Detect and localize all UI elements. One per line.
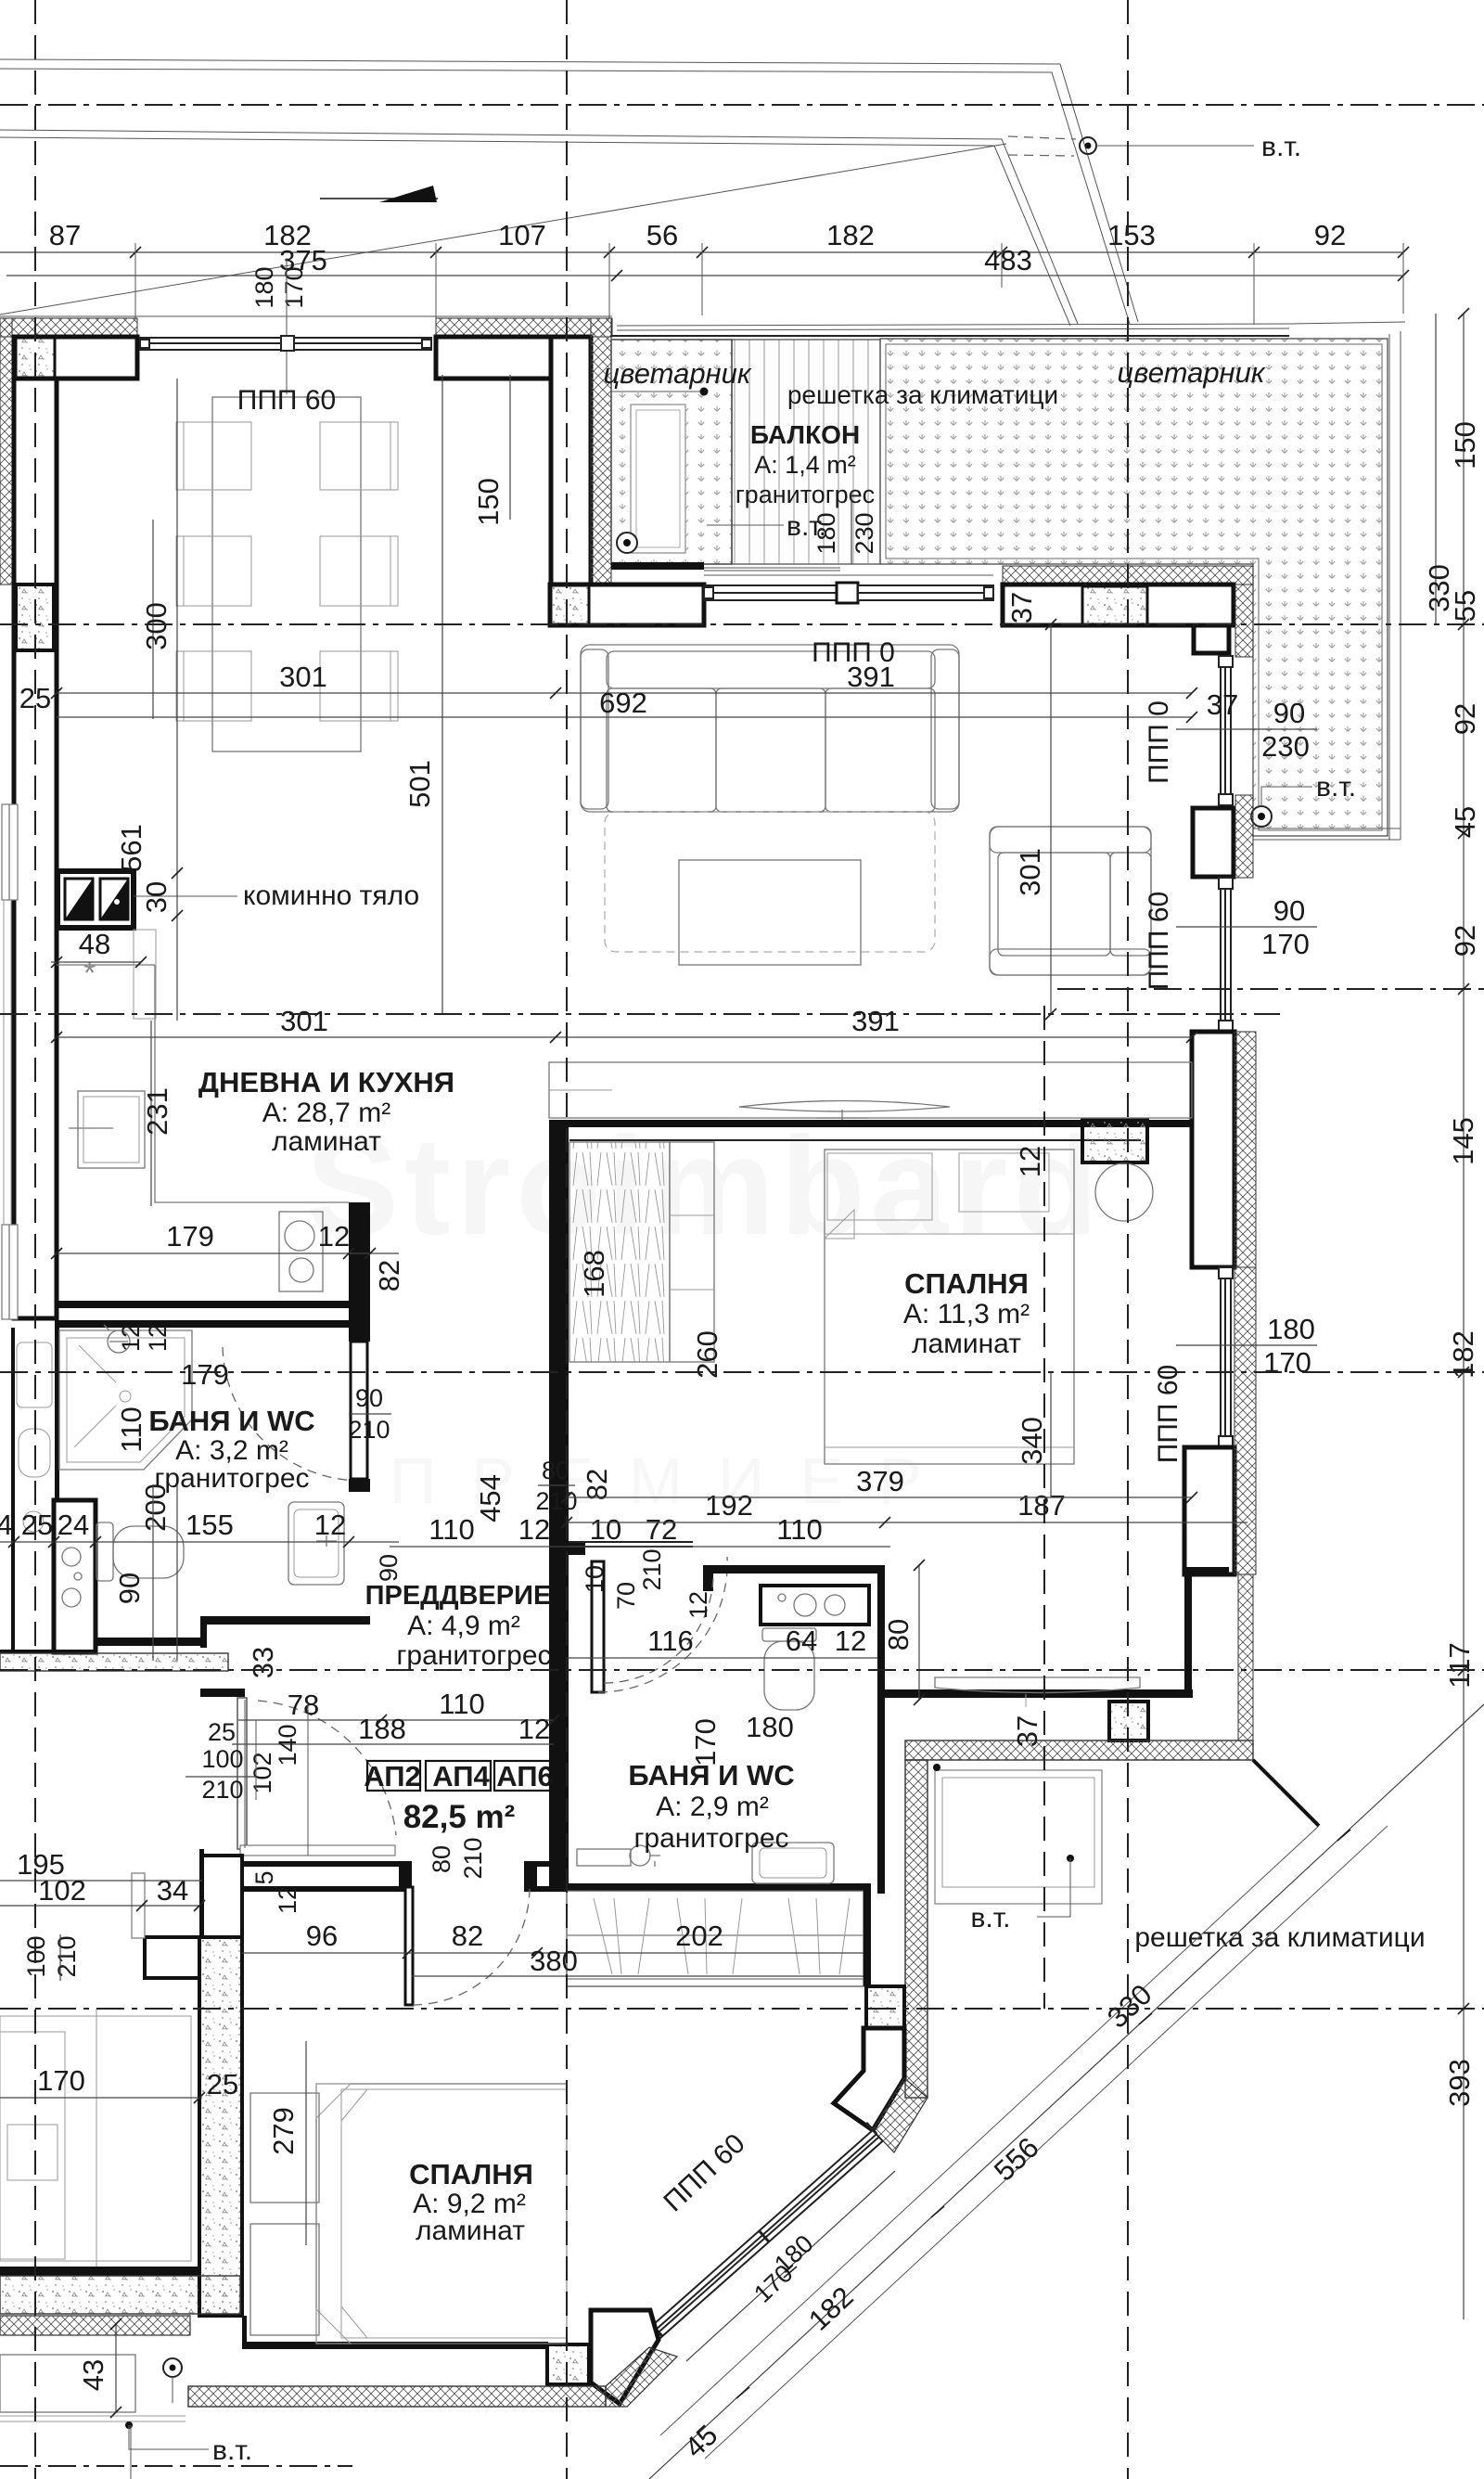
bed [825,1150,1074,1464]
170 25 279 [0,2097,202,2099]
shower [59,1330,192,1470]
roof outline upper floor [0,59,1138,322]
svg-text:200: 200 [139,1484,172,1532]
svg-text:10: 10 [581,1565,608,1593]
svg-text:48: 48 [79,928,110,960]
svg-text:64: 64 [786,1625,817,1657]
planter 2 large [880,339,1388,836]
svg-text:А: 4,9 m²: А: 4,9 m² [407,1611,520,1641]
neighbour bottom wall [0,2267,199,2276]
svg-text:102: 102 [38,1874,86,1907]
svg-text:210: 210 [53,1935,81,1977]
planter1 bottom edge [611,562,704,570]
hatch band bottom [188,2386,606,2407]
pier P1 [834,2028,904,2130]
svg-text:170: 170 [1261,928,1310,960]
concrete block left wall [16,584,54,650]
concrete block in bedroom top wall [1082,1120,1147,1162]
window W5 ППП 60 [1219,878,1233,1032]
svg-text:ДНЕВНА И КУХНЯ: ДНЕВНА И КУХНЯ [198,1066,454,1098]
svg-text:АП6: АП6 [496,1760,554,1792]
svg-text:12: 12 [684,1591,712,1619]
fridge / sink unit [78,1091,145,1168]
svg-text:в.т.: в.т. [212,2435,252,2466]
axis 3 horizontal y=1093 [0,1013,1280,1015]
bath south wall left part [92,1638,203,1646]
svg-text:45: 45 [1449,806,1481,838]
svg-text:в.т.: в.т. [787,511,826,542]
svg-text:25: 25 [208,1718,236,1746]
svg-text:391: 391 [851,1005,900,1037]
chimney block [58,871,134,928]
svg-text:АП2: АП2 [364,1760,421,1792]
svg-text:380: 380 [530,1945,578,1977]
svg-text:72: 72 [646,1513,677,1546]
svg-text:гранитогрес: гранитогрес [396,1640,551,1671]
svg-text:4: 4 [0,1509,13,1541]
svg-text:301: 301 [280,1005,328,1037]
svg-text:5: 5 [250,1870,278,1884]
svg-text:в.т.: в.т. [1261,132,1301,162]
neighbour door leaf [132,1873,145,1938]
svg-text:АП4: АП4 [432,1760,490,1792]
svg-text:в.т.: в.т. [1316,772,1356,803]
AP boxes [364,1760,554,1792]
svg-text:117: 117 [1443,1642,1476,1688]
kitchen bottom wall upper line [57,1301,370,1308]
svg-text:А: 1,4 m²: А: 1,4 m² [754,451,856,479]
sink 2.9 [752,1843,834,1883]
axis 6 horizontal y=2165 [0,2008,1484,2010]
svg-text:БАНЯ И WC: БАНЯ И WC [148,1405,314,1437]
svg-text:10: 10 [590,1513,621,1546]
svg-text:110: 110 [776,1513,822,1546]
svg-text:70: 70 [612,1582,640,1610]
svg-text:192: 192 [705,1489,753,1522]
bath2.9 top wall [703,1565,885,1573]
nightstand boxes [250,2093,319,2203]
insulation hatch top-left [0,318,137,337]
svg-text:92: 92 [1449,925,1481,957]
wall block top-left [14,337,137,379]
svg-text:155: 155 [185,1509,234,1541]
svg-text:90: 90 [113,1573,146,1604]
svg-text:цветарник: цветарник [1117,356,1265,389]
svg-text:25: 25 [207,2068,238,2100]
svg-text:391: 391 [847,661,895,693]
svg-text:210: 210 [201,1776,243,1804]
svg-text:170: 170 [280,266,308,308]
top dimension row 1 y=272 [0,251,1403,253]
wall stub left of entrance [199,1849,204,1937]
bath south wall right part [200,1616,370,1625]
axis A vertical x=38 [34,0,36,2479]
svg-text:гранитогрес: гранитогрес [736,481,875,508]
shaft walls [54,1500,96,1652]
kitchen wall stub [349,1202,370,1304]
neighbour balcony bottom-left [0,2355,135,2412]
svg-text:ламинат: ламинат [272,1126,381,1157]
svg-text:170: 170 [1263,1346,1311,1379]
chain y=1662 [0,1541,399,1543]
svg-text:153: 153 [1107,219,1156,251]
svg-text:501: 501 [403,760,436,808]
svg-text:179: 179 [181,1358,229,1391]
washbasin 3.2 [288,1502,344,1585]
svg-text:БАЛКОН: БАЛКОН [750,420,860,449]
svg-text:168: 168 [578,1250,610,1298]
toilet 3.2 [96,1522,113,1581]
bath top wall [55,1320,352,1328]
bedroom2 south wall [242,2342,548,2349]
window W4 ППП 0 [1219,656,1233,805]
bath2.9 east wall [877,1573,885,1698]
diagonal end cap [1253,1760,1319,1826]
svg-text:82: 82 [581,1469,613,1500]
svg-text:12: 12 [144,1324,172,1352]
balcony door W2 [704,585,840,600]
svg-text:А: 28,7 m²: А: 28,7 m² [262,1098,390,1128]
hatch segment [1235,584,1253,657]
niche south wall (bedroom) [885,1689,1193,1698]
svg-text:37: 37 [1207,688,1238,721]
insulation column east of living room [591,318,611,584]
kitchen chain y=1351 [57,1252,399,1254]
80 niche dim [918,1565,920,1700]
svg-text:34: 34 [157,1874,188,1907]
svg-text:90: 90 [1273,894,1305,927]
entrance door leaf [405,1887,413,2005]
svg-text:340: 340 [1016,1417,1048,1465]
insulation hatch left column [0,318,12,584]
top dimension row 2 y=297 [6,275,1403,276]
west door leaf [237,1698,247,1849]
toilet 2.9 [762,1628,816,1641]
wall block long (bedroom east) [1192,1032,1235,1267]
svg-text:92: 92 [1449,703,1481,735]
svg-text:150: 150 [1449,421,1481,469]
balcony floor stripes [732,340,880,564]
bath east wall above door [349,1308,370,1342]
wall east of living room [551,337,591,584]
svg-text:30: 30 [140,881,173,913]
svg-text:цветарник: цветарник [603,357,751,390]
svg-text:90: 90 [375,1554,403,1582]
insulation hatch strip above east wall band [1003,566,1253,584]
svg-text:145: 145 [1447,1117,1479,1165]
96 82 380 202 [242,1952,864,1954]
bath2.9 east wall lower part [877,1698,885,1894]
axis 4 horizontal y=1479 [0,1371,1484,1373]
bedroom top wall (south of living) [549,1120,1192,1127]
closet strip outline [567,1891,864,1986]
svg-text:12: 12 [314,1509,346,1541]
svg-text:решетка за климатици: решетка за климатици [787,380,1058,409]
axis 2 horizontal y=673 [0,623,1484,625]
svg-text:379: 379 [856,1465,904,1497]
svg-text:140: 140 [274,1724,301,1766]
svg-text:12: 12 [318,1220,350,1252]
svg-text:187: 187 [1017,1489,1066,1522]
bedroom2 west wall speckled column [199,1937,242,2316]
v.t. marker top [1080,137,1096,154]
svg-text:ППП 60: ППП 60 [237,385,336,416]
neighbour wall left lower [11,1328,15,1652]
svg-text:решетка за климатици: решетка за климатици [1134,1922,1425,1953]
planter 2 border double lines [886,344,1382,830]
bath door swing arc [223,1347,360,1481]
svg-text:110: 110 [439,1688,484,1720]
svg-text:170: 170 [689,1718,722,1766]
dining table [212,397,361,751]
hall west wall above west door [200,1689,245,1697]
svg-text:ППП 60: ППП 60 [1153,1365,1183,1463]
mullion block [837,583,858,603]
wall block east part [1003,584,1234,625]
sofa [581,645,959,812]
bath2.9 door arc [604,1575,713,1683]
hall west wall block (bedroom2 west wall top) [202,1856,242,1937]
neighbour room bottom-left [0,2016,191,2261]
svg-text:12: 12 [274,1886,301,1914]
svg-text:25: 25 [21,1509,53,1541]
bath east wall below door [349,1479,370,1492]
chain y=747 301|391 and y=773 692 [57,692,1192,694]
svg-text:230: 230 [851,512,878,554]
svg-text:188: 188 [358,1713,406,1745]
window W6 bedroom ППП 60 [1219,1267,1233,1447]
top wall outer line [0,315,612,317]
svg-text:37: 37 [1011,1715,1043,1747]
svg-text:12: 12 [117,1324,145,1352]
window W1 living room [140,336,431,351]
svg-text:210: 210 [348,1416,390,1444]
svg-text:116: 116 [647,1625,693,1657]
shaft pipes [62,1548,81,1566]
bedroom SE wall [1184,1447,1235,1574]
svg-text:170: 170 [37,2064,85,2097]
svg-text:56: 56 [646,219,678,251]
svg-text:78: 78 [288,1689,319,1721]
svg-text:483: 483 [984,244,1032,276]
wall block west part [550,584,704,625]
svg-text:*: * [83,956,96,991]
svg-text:82,5 m²: 82,5 m² [403,1799,516,1835]
48 dim [51,961,141,963]
231 dim [150,1021,152,1206]
svg-text:210: 210 [638,1548,666,1590]
bedroom east wall inner line continues [1184,1567,1192,1698]
501 vertical [441,624,443,1014]
svg-text:А: 11,3 m²: А: 11,3 m² [903,1299,1030,1329]
kitchen counter left column [155,965,349,1202]
west door swing arc [258,1701,396,1835]
svg-text:в.т.: в.т. [970,1903,1010,1933]
bedroom south wall stub + door [569,1542,585,1555]
svg-text:182: 182 [826,219,875,251]
small shaft right of chimney [134,930,156,1019]
svg-text:179: 179 [166,1220,214,1252]
svg-text:А: 2,9 m²: А: 2,9 m² [656,1792,769,1822]
svg-text:102: 102 [249,1752,276,1793]
wall notch top [1194,625,1229,653]
svg-text:454: 454 [474,1474,506,1522]
svg-text:гранитогрес: гранитогрес [633,1823,788,1854]
hatch column east (below bedroom SE) [1238,1574,1253,1740]
svg-text:12: 12 [835,1625,866,1657]
svg-text:150: 150 [472,478,505,526]
svg-text:37: 37 [1005,592,1038,623]
svg-text:82: 82 [373,1260,405,1291]
pouf [1095,1163,1153,1221]
svg-text:СПАЛНЯ: СПАЛНЯ [409,2158,533,2190]
svg-text:110: 110 [429,1513,474,1546]
niche pier left [145,1937,199,1978]
svg-text:561: 561 [115,824,147,872]
diagonal sight line [0,144,1006,315]
svg-text:А: 3,2 m²: А: 3,2 m² [175,1435,288,1466]
wardrobe [569,1142,670,1362]
301 vertical right of living [1050,624,1052,1014]
faucet unit [577,1845,660,1867]
svg-text:80: 80 [882,1619,915,1651]
svg-text:33: 33 [247,1647,279,1678]
svg-text:231: 231 [141,1087,173,1136]
43 [115,2324,117,2412]
svg-text:СПАЛНЯ: СПАЛНЯ [904,1267,1029,1300]
bath door leaf [351,1342,367,1479]
desk in niche [935,1677,1140,1693]
116 / 64 / 12 chain [567,1657,877,1659]
svg-text:180: 180 [746,1711,794,1743]
svg-text:210: 210 [535,1487,577,1515]
witness verticals top [135,243,1403,325]
svg-text:90: 90 [355,1384,383,1412]
svg-text:ламинат: ламинат [912,1329,1021,1359]
svg-text:12: 12 [1014,1146,1046,1177]
svg-text:ППП 0: ППП 0 [1144,700,1174,784]
left wall lower thin [55,1328,59,1504]
svg-text:55: 55 [1449,590,1481,622]
balcony parapet top lines [611,335,1289,337]
axis C vertical x=1216 [1127,0,1129,2479]
north arrow [320,198,438,199]
closet strip east wall [864,1883,871,1986]
svg-text:12: 12 [518,1513,550,1546]
bottom edge of bath block [0,1650,96,1653]
wardrobe room closet [935,1770,1102,1904]
axis B vertical x=611 [566,0,568,2479]
cooktop [279,1212,323,1291]
svg-text:301: 301 [279,661,327,693]
svg-text:90: 90 [1273,697,1305,729]
svg-text:393: 393 [1443,2059,1476,2107]
planter 1 [611,340,732,564]
planter 1 inner pot [611,391,704,392]
svg-text:80: 80 [542,1457,569,1484]
svg-text:80: 80 [428,1845,455,1873]
svg-text:коминно тяло: коминно тяло [243,880,419,911]
svg-text:107: 107 [498,219,546,251]
svg-text:96: 96 [306,1920,338,1952]
pier P2 [591,2310,659,2404]
armchair [990,827,1151,975]
hatch band horizontal [905,1740,1253,1760]
speckled block below niche [1109,1702,1148,1740]
svg-text:301: 301 [1014,848,1046,896]
hatch column west of wardrobe room [905,1760,927,2098]
svg-text:92: 92 [1314,219,1346,251]
bedroom door leaf [592,1561,604,1692]
shelf above south wall [240,1845,395,1856]
hall south wall + entrance door [242,1861,399,1867]
svg-text:82: 82 [452,1920,483,1952]
svg-text:110: 110 [115,1406,147,1452]
bath2.9 south wall [567,1883,870,1891]
rug dashed [605,812,935,952]
svg-text:87: 87 [49,219,81,251]
TV console [549,1062,1192,1118]
svg-text:300: 300 [140,602,173,650]
axis 1 horizontal y=113 [0,104,1484,106]
wall block mid [1193,808,1234,877]
diagonal window W7 [646,2123,883,2343]
roof inner outline [0,130,1078,324]
svg-text:279: 279 [267,2107,300,2155]
neighbour windows in left facade [2,804,18,900]
chain y=1118 [57,1036,1192,1038]
vertical dim x=165 / 191 top [152,520,154,719]
v.t. marker planter2 [1251,806,1272,827]
svg-text:24: 24 [58,1509,89,1541]
chairs [176,422,398,721]
svg-text:100: 100 [201,1745,243,1773]
svg-text:ламинат: ламинат [416,2216,525,2246]
axis 3b horizontal y=1066 [1057,988,1484,990]
svg-text:202: 202 [675,1920,723,1952]
axis 7 horizontal y=2658 partial [0,2465,352,2467]
svg-text:43: 43 [77,2359,109,2391]
wall between hall and bedroom/bath2.9 vertical [549,1126,569,1556]
insulation dotted band bottom [0,2276,240,2314]
180/170 window dim diagonal [686,2171,895,2361]
svg-text:230: 230 [1261,730,1310,763]
svg-text:210: 210 [459,1837,487,1879]
SE corner wall piece [1192,1567,1229,1574]
axis 5 horizontal y=1800 [0,1669,1484,1671]
svg-text:180: 180 [1267,1313,1315,1345]
entrance door arc [413,1889,530,2005]
svg-text:180: 180 [250,266,278,308]
150 dim [441,375,443,624]
coffee table [679,860,861,965]
insulation dotted band below bath [0,1653,228,1671]
svg-text:692: 692 [599,687,647,719]
svg-text:Stroimbard: Stroimbard [306,1108,1104,1264]
wall block top-middle [436,337,551,379]
svg-text:12: 12 [518,1713,550,1745]
insulation hatch top (right of window) [436,318,612,337]
window W3 [858,585,993,600]
axis D vertical x=1126 partial [1043,1006,1045,2009]
washer unit [761,1586,869,1625]
svg-text:ПРЕДДВЕРИЕ: ПРЕДДВЕРИЕ [365,1581,552,1611]
bedroom door arc [598,1557,727,1692]
concrete column top-left [16,338,55,379]
svg-text:ППП 60: ППП 60 [1144,892,1174,990]
